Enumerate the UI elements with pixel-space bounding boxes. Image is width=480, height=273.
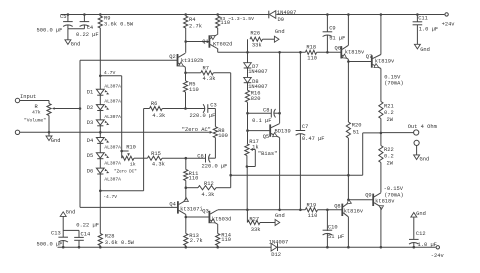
label Gnd top-left [71,41,81,47]
label Q6 type [345,49,365,55]
capacitor C13 [58,230,68,247]
label C7 value [302,136,325,142]
svg-text:Q4: Q4 [169,202,175,208]
node Q8 collector rail [347,246,350,249]
node Q4 collector [185,216,188,219]
node R14 rail [216,246,219,249]
label C7 [302,124,308,130]
resistor R28 [98,234,102,246]
LED D4 AL307A [96,138,109,144]
node A driver [347,60,350,63]
transistor Q3 kt503d [209,210,217,224]
label C14 [81,231,91,237]
label D7 value [248,69,267,75]
label R17 value [252,144,258,150]
label D4 type [104,145,121,151]
svg-text:33k: 33k [252,43,262,49]
label Gnd out [420,157,430,163]
label D5 [87,153,93,159]
label Q9 type [375,198,395,204]
resistor R15 [147,156,162,160]
wire C6 to R8 [214,138,216,159]
label C3 [210,102,216,108]
label R12 [204,181,214,187]
node C5 top [67,13,70,16]
label R7 [203,65,209,71]
wire R6 right [162,108,185,110]
svg-text:R18: R18 [306,45,316,51]
resistor R27 [247,210,260,225]
svg-text:C10: C10 [328,225,338,231]
node Q8 emitter [347,199,350,202]
svg-text:Q6: Q6 [335,46,341,52]
svg-text:500.0 µF: 500.0 µF [37,241,63,247]
svg-text:110: 110 [221,237,231,243]
svg-text:1.0 µF: 1.0 µF [419,27,438,33]
label D12 ref [271,252,281,258]
node C10 tap [326,209,329,212]
wire -24V bottom rail (right of D12) [278,246,436,248]
capacitor C12 [409,239,419,247]
label Q4 [169,202,175,208]
label D9 ref [278,17,284,23]
label D12 value [269,239,288,245]
svg-text:Q3: Q3 [202,208,208,214]
label R17 [249,139,259,145]
wire Q9 emitter to rail [380,207,382,247]
resistor R16 [245,83,249,103]
svg-text:D6: D6 [87,168,93,174]
svg-text:C9: C9 [329,25,335,31]
node C7 top [299,51,302,54]
label 4.7V [104,70,116,76]
node R28 rail [99,246,102,249]
svg-text:+24v: +24v [442,21,456,27]
svg-text:R9: R9 [104,15,110,21]
svg-text:1.0 µF: 1.0 µF [418,242,437,248]
svg-text:110: 110 [307,56,317,62]
svg-text:Q2: Q2 [169,54,175,60]
wire Q6 emitter to node A [347,59,349,61]
label R9 [104,15,110,21]
resistor R3 [216,16,220,28]
label Q5 [263,134,269,140]
label C3 value [190,113,216,119]
wire Q7 collector to rail [380,15,382,55]
wire C3 to R8 [214,109,216,127]
ground below C5 [65,29,71,45]
label Gnd pot [51,138,61,144]
label D4 [87,138,93,144]
capacitor C11 [413,15,423,45]
svg-text:AL307A: AL307A [104,99,121,105]
label C13 value [37,241,63,247]
svg-text:R28: R28 [105,233,115,239]
svg-text:3.6k 0.5W: 3.6k 0.5W [104,22,134,28]
svg-text:4.7V: 4.7V [104,70,116,76]
label D6 [87,168,93,174]
svg-text:D3: D3 [87,120,93,126]
label R26 [250,30,260,36]
label R27 [249,217,259,223]
wire D4-D5 [99,143,101,153]
wire Q8 emitter to Q9 base [348,199,373,201]
wire R5 stubs [185,73,187,109]
label +24v [442,21,456,27]
terminal input return [15,130,19,134]
label R28 [105,233,115,239]
label R21 wattage [387,117,394,123]
wire R7 left [186,72,201,74]
wire input riser [79,60,81,207]
LED D6 AL307A [96,168,109,174]
svg-text:C11: C11 [418,15,428,21]
ground arrow R27 [260,220,280,226]
svg-text:"Zero AC": "Zero AC" [182,127,211,133]
label Q9 [365,193,371,199]
wire R28 to rail [99,246,101,248]
node Q1 base tap [184,40,187,43]
svg-text:R12: R12 [204,181,214,187]
svg-text:(70mA): (70mA) [384,80,403,86]
node C10 rail [326,246,329,249]
label Q3 type [212,216,231,222]
label R pot [35,104,39,110]
svg-text:Gnd: Gnd [420,157,430,163]
wire Q1 base [186,41,210,43]
label R14 value [221,237,231,243]
label Q3 [202,208,208,214]
wire Q5 emitter drop [279,138,281,210]
label R4 value [189,23,202,29]
transistor Q7 kt819v [372,55,381,69]
wire R4 to Q2 collector [185,28,187,53]
svg-text:0.2: 0.2 [384,110,394,116]
node C14 rail [78,246,81,249]
svg-text:AL307A: AL307A [104,176,121,182]
label C10 [328,225,338,231]
svg-text:kt819v: kt819v [375,58,395,64]
svg-text:Gnd: Gnd [275,213,285,219]
label C4 value [76,32,99,38]
ground above C13 [60,212,66,231]
label D8 [252,79,258,85]
wire Q6 collector to rail [347,15,349,46]
diode D9 1N4007 (series, top rail) [269,11,276,19]
label D7 [252,64,258,70]
wire D3 to gnd line [99,125,101,137]
svg-text:4.3k: 4.3k [152,113,165,119]
LED D2 AL307A [96,105,109,111]
node C9 top [326,13,329,16]
svg-text:R26: R26 [250,30,260,36]
svg-text:-0.15V: -0.15V [384,186,404,192]
svg-text:kt3102b: kt3102b [181,58,204,64]
transistor Q5 BD139 [270,124,279,138]
label D1 [87,90,93,96]
wire to Q4 base [80,206,178,208]
label Q7 type [375,58,395,64]
label Zero AC [182,127,211,133]
resistor R9 [98,16,102,28]
label D1 type [104,83,121,89]
label R18 [306,45,316,51]
label C10 value [328,234,344,240]
svg-text:1k: 1k [130,161,136,167]
diode D12 1N4007 (series, bottom rail) [271,243,277,251]
node Q5 emitter bottom [278,209,281,212]
wire mid rail y52 [218,51,306,53]
label -4.7V [103,194,117,200]
node C8 tap [246,112,249,115]
label R16 value [251,96,261,102]
node Q5 collector top [278,51,281,54]
svg-text:R20: R20 [352,123,362,129]
svg-text:D1: D1 [87,90,93,96]
transistor Q8 kt816v [342,200,351,217]
label Q2 type [181,58,204,64]
wire drive line [218,209,305,211]
resistor R18 [305,50,316,54]
wire R14 to rail [217,246,219,248]
wire Q4-Q3 base link [186,216,210,218]
node Q9 emitter rail [380,246,383,249]
node bootstrap [229,174,232,177]
label Gnd R26 [275,29,285,35]
label R15 value [152,162,165,168]
label C14 value [76,223,99,229]
label R21 value [384,110,394,116]
wire R19 to Q8 base [318,209,343,211]
label D9 value [277,10,296,16]
transistor Q9 kt818v [373,193,383,210]
svg-text:C5: C5 [60,14,66,20]
node C11 top [416,13,419,16]
label Input [20,94,36,100]
label Out 4 Ohm [408,124,437,130]
wire output to terminal [381,132,414,134]
resistor R21 [379,102,383,119]
svg-text:C12: C12 [416,231,426,237]
svg-text:Gnd: Gnd [51,138,61,144]
label R5 [189,81,195,87]
ground below pot [46,132,52,140]
svg-text:C7: C7 [302,124,308,130]
svg-text:kt3107i: kt3107i [180,207,203,213]
label R9 value [104,22,134,28]
svg-text:Gnd: Gnd [420,47,430,53]
label R20 value [353,129,359,135]
label R19 value [308,213,318,219]
wire Q3 emitter to R14 [216,224,218,234]
svg-text:110: 110 [189,87,199,93]
wire R18 to Q6 base [317,51,342,53]
wire Q1 collector down [216,49,218,53]
label R12 value [201,192,214,198]
wire to Q2 base [80,59,178,61]
label R22 value [384,154,394,160]
svg-text:51: 51 [353,129,359,135]
svg-text:AL307A: AL307A [104,83,121,89]
resistor R19 [305,208,317,212]
label R11 [189,171,199,177]
wire D5-D6 [99,158,101,168]
label R19 [307,203,317,209]
resistor R13 [184,217,188,247]
wire D6 to R28 [99,173,101,233]
label 47k [32,110,41,116]
resistor R20 [346,122,350,138]
potentiometer R 47k Volume [47,101,80,133]
svg-text:R21: R21 [384,104,394,110]
svg-text:2W: 2W [387,117,394,123]
terminal Out return [414,140,419,145]
node R17 bottom [246,165,249,168]
svg-text:-4.7V: -4.7V [103,194,117,200]
svg-text:R27: R27 [249,217,259,223]
svg-text:Gnd: Gnd [66,209,76,215]
svg-text:AL307A: AL307A [104,114,121,120]
label C5 value [37,28,63,34]
resistor R14 [216,234,220,246]
label C9 [329,25,335,31]
label R10 [126,144,136,150]
svg-text:Q1: Q1 [202,39,208,45]
svg-text:820: 820 [251,96,261,102]
node +4.7V [99,75,102,78]
label C12 value [418,242,437,248]
wire C5-C4 bottom link [68,28,85,30]
label C8 [263,108,269,114]
svg-text:51 µF: 51 µF [329,36,345,42]
label 70mA bottom [384,192,403,198]
svg-text:110: 110 [189,176,199,182]
wire +24V top rail (right of D9) [276,14,444,16]
svg-text:47k: 47k [32,110,41,116]
label Bias [258,151,277,157]
label C5 [60,14,66,20]
node R4 top [184,13,187,16]
transistor Q1 KT602d [209,35,217,49]
wire Q3 collector up [216,209,219,211]
terminal Out [414,130,419,135]
svg-text:1k: 1k [252,144,258,150]
node C4 top [83,13,86,16]
LED D3 AL307A [96,120,109,126]
label D3 [87,120,93,126]
svg-text:2.7k: 2.7k [190,238,203,244]
label C4 [87,25,93,31]
label R4 [189,17,195,23]
svg-text:2.7k: 2.7k [189,23,202,29]
label R20 [352,123,362,129]
wire ground line [20,131,213,134]
svg-text:D2: D2 [87,105,93,111]
svg-text:100: 100 [218,133,228,139]
svg-text:R6: R6 [151,101,157,107]
label C6 [197,153,203,159]
label -0.15V [384,186,404,192]
svg-text:Q5: Q5 [263,134,269,140]
svg-text:C6: C6 [197,153,203,159]
label Gnd R27 [275,213,285,219]
svg-text:C13: C13 [51,230,61,236]
diode D8 1N4007 [244,68,252,83]
node C9 bottom [326,51,329,54]
label C12 [416,231,426,237]
label -24v [431,253,445,259]
label C11 value [419,27,438,33]
wire R21 to R22 [380,119,382,146]
wire input to pot [20,100,49,102]
wire R22 to Q9 [380,163,382,193]
svg-text:3.6k 0.5W: 3.6k 0.5W [105,240,135,246]
svg-text:220.0 µF: 220.0 µF [190,113,216,119]
svg-text:51 µF: 51 µF [328,234,344,240]
resistor R26 [248,37,263,52]
svg-text:R7: R7 [203,65,209,71]
svg-text:"Zero DC": "Zero DC" [114,169,137,174]
label C6 value [202,163,228,169]
label Q6 [335,46,341,52]
svg-text:kt503d: kt503d [212,216,231,222]
label R14 [221,233,231,239]
resistor R5 [183,81,187,92]
node Q6 collector rail [347,13,350,16]
node drive line D-chain [246,209,249,212]
svg-text:C8: C8 [263,108,269,114]
svg-text:Q8: Q8 [334,203,340,209]
capacitor C14 [74,230,84,247]
label R27 value [251,227,261,233]
label R16 [251,91,261,97]
svg-text:AL307A: AL307A [104,145,121,151]
label Volume [24,118,46,124]
svg-text:D12: D12 [271,252,281,258]
label R5 value [189,87,199,93]
svg-text:0.22 µF: 0.22 µF [76,32,99,38]
label R22 wattage [387,161,394,167]
label R11 value [189,176,199,182]
wire D2-D3 [99,110,101,120]
wire R9 to D1 [99,28,101,89]
node C7 bottom [299,209,302,212]
svg-text:D5: D5 [87,153,93,159]
wire C13-C14 top link [63,229,79,231]
svg-text:kt815v: kt815v [345,49,365,55]
svg-text:2W: 2W [387,161,394,167]
svg-text:1N4007: 1N4007 [269,239,288,245]
label R10 value [130,161,136,167]
capacitor C5 [63,15,73,29]
svg-text:0.2: 0.2 [384,154,394,160]
svg-text:Out 4 Ohm: Out 4 Ohm [408,124,437,130]
wire node A to Q7 base [348,61,371,63]
ground below out terminal [414,146,420,160]
label R13 [189,233,199,239]
node C8 right [278,112,281,115]
label Q5 type [275,129,291,135]
node Q7 collector rail [380,13,383,16]
capacitor C9 [323,15,333,53]
svg-text:Gnd: Gnd [71,41,81,47]
label Gnd C12 [416,211,426,217]
label R8 [218,128,224,134]
label D2 type [104,99,121,105]
svg-text:Q7: Q7 [366,54,372,60]
label R8 value [218,133,228,139]
label C13 [51,230,61,236]
